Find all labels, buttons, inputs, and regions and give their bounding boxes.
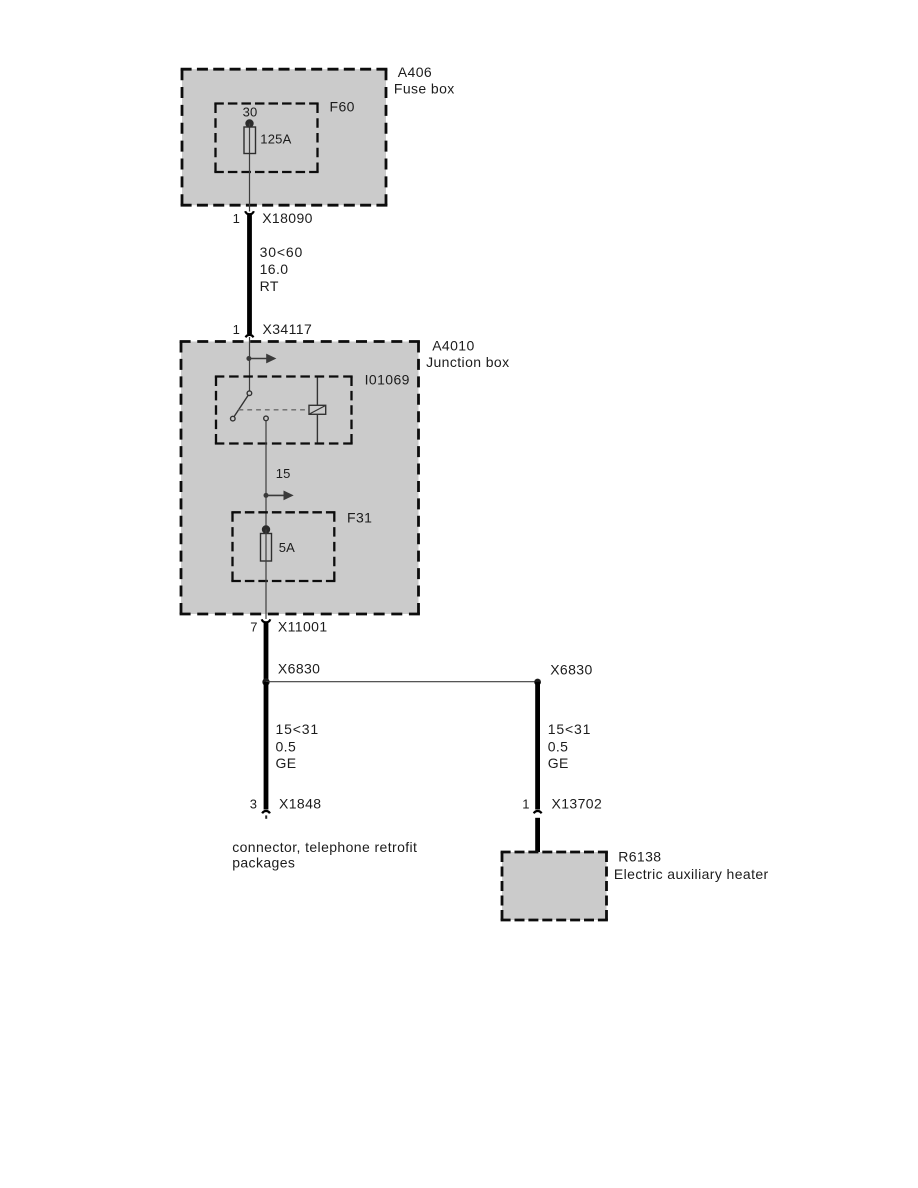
junction dot node 15 bbox=[264, 493, 269, 498]
svg-text:connector, telephone retrofit: connector, telephone retrofit bbox=[232, 839, 417, 855]
svg-text:15<31: 15<31 bbox=[276, 721, 320, 737]
svg-text:Electric auxiliary heater: Electric auxiliary heater bbox=[614, 866, 769, 882]
svg-text:X13702: X13702 bbox=[552, 796, 603, 812]
thick wire X6830 to X13702 bbox=[535, 682, 540, 810]
connector X11001 cup bbox=[262, 619, 271, 622]
arrow branch 15 bbox=[266, 491, 294, 501]
heater R6138 box bbox=[502, 852, 607, 920]
relay switch output terminal bbox=[264, 416, 269, 421]
relay actuator dashed link bbox=[239, 409, 310, 411]
fuse F31 terminal dot bbox=[262, 525, 270, 533]
connector X1848 continuation dash bbox=[265, 815, 267, 818]
svg-text:A406: A406 bbox=[398, 64, 432, 80]
connector X13702 cup bbox=[534, 811, 542, 813]
svg-text:RT: RT bbox=[260, 278, 279, 294]
svg-text:3: 3 bbox=[250, 796, 257, 811]
wire from fuse F31 to connector X11001 bbox=[265, 530, 267, 620]
connector X18090 cup bbox=[245, 211, 254, 214]
relay I01069 box bbox=[215, 375, 353, 377]
relay coil body bbox=[309, 405, 326, 414]
thick wire stub X13702 into R6138 bbox=[535, 818, 540, 853]
relay coil wire upper bbox=[316, 378, 318, 406]
junction dot node 30 feed bbox=[246, 356, 251, 361]
relay switch common terminal bbox=[247, 391, 252, 396]
svg-text:15<31: 15<31 bbox=[548, 721, 592, 737]
svg-text:R6138: R6138 bbox=[618, 849, 661, 865]
svg-text:0.5: 0.5 bbox=[548, 739, 569, 755]
svg-text:1: 1 bbox=[233, 322, 240, 337]
arrow branch 30 bbox=[249, 354, 277, 364]
thick wire X11001 to node X6830 bbox=[264, 623, 269, 682]
svg-text:X34117: X34117 bbox=[263, 321, 313, 337]
relay switch arm terminal bbox=[231, 416, 236, 421]
svg-text:A4010: A4010 bbox=[432, 337, 474, 353]
svg-text:F60: F60 bbox=[330, 99, 355, 115]
destination text connector telephone bbox=[232, 839, 417, 870]
connector X1848 cup bbox=[262, 811, 270, 813]
relay switch arm bbox=[234, 395, 248, 416]
node X6830 left dot bbox=[262, 678, 269, 685]
connector X34117 cup bbox=[246, 335, 254, 337]
svg-text:GE: GE bbox=[548, 755, 569, 771]
svg-text:30: 30 bbox=[243, 105, 258, 120]
fuse F60 body bbox=[244, 127, 256, 154]
svg-text:X11001: X11001 bbox=[278, 618, 328, 634]
svg-text:1: 1 bbox=[522, 797, 529, 812]
thick wire X6830 to X1848 bbox=[264, 682, 269, 810]
svg-text:125A: 125A bbox=[260, 132, 291, 147]
svg-text:5A: 5A bbox=[279, 540, 295, 555]
wire relay output down to fuse F31 bbox=[265, 421, 267, 530]
svg-text:16.0: 16.0 bbox=[260, 261, 289, 277]
wire between X6830 nodes bbox=[266, 681, 538, 683]
relay coil wire lower bbox=[316, 414, 318, 442]
fuse F31 body bbox=[261, 534, 272, 562]
svg-text:GE: GE bbox=[276, 755, 297, 771]
node X6830 right dot bbox=[534, 679, 541, 686]
wire from fuse F60 down to connector X18090 bbox=[249, 124, 251, 212]
fuse holder F60 bbox=[214, 102, 318, 104]
svg-text:F31: F31 bbox=[347, 510, 372, 526]
fuse holder F31 bbox=[231, 511, 335, 513]
svg-text:X1848: X1848 bbox=[279, 795, 321, 811]
svg-text:packages: packages bbox=[232, 854, 295, 870]
svg-text:Junction box: Junction box bbox=[426, 354, 509, 370]
svg-text:X6830: X6830 bbox=[550, 662, 592, 678]
thick wire X18090 to X34117 bbox=[247, 214, 252, 334]
svg-text:X18090: X18090 bbox=[262, 210, 313, 226]
svg-text:I01069: I01069 bbox=[365, 371, 410, 387]
fuse box A406 bbox=[182, 69, 386, 205]
wire from X34117 into relay I01069 bbox=[249, 337, 251, 391]
svg-text:X6830: X6830 bbox=[278, 661, 320, 677]
pin 30 terminal dot bbox=[245, 119, 253, 127]
svg-text:7: 7 bbox=[250, 619, 257, 634]
svg-text:Fuse box: Fuse box bbox=[394, 81, 455, 97]
svg-text:15: 15 bbox=[276, 466, 291, 481]
svg-text:1: 1 bbox=[233, 211, 240, 226]
svg-text:0.5: 0.5 bbox=[276, 739, 297, 755]
junction box A4010 bbox=[181, 342, 419, 615]
svg-text:30<60: 30<60 bbox=[260, 244, 304, 260]
